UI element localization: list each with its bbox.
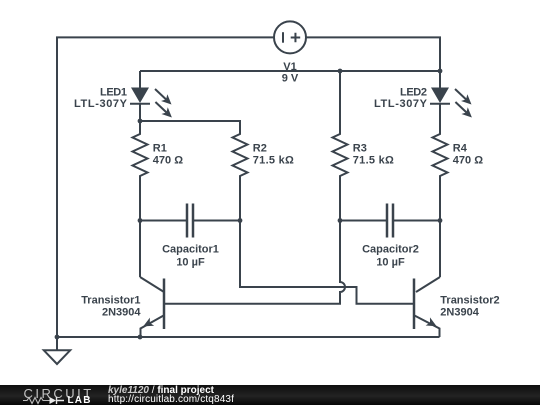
svg-text:LTL-307Y: LTL-307Y — [74, 98, 128, 110]
svg-text:71.5 kΩ: 71.5 kΩ — [253, 155, 294, 167]
svg-text:R2: R2 — [253, 143, 267, 155]
svg-text:9 V: 9 V — [282, 72, 299, 84]
svg-text:Capacitor1: Capacitor1 — [162, 244, 219, 256]
svg-text:Capacitor2: Capacitor2 — [362, 244, 419, 256]
svg-text:2N3904: 2N3904 — [102, 306, 141, 318]
svg-text:V1: V1 — [283, 61, 296, 73]
svg-text:470 Ω: 470 Ω — [153, 155, 183, 167]
svg-text:LED1: LED1 — [100, 86, 127, 98]
svg-text:470 Ω: 470 Ω — [453, 155, 483, 167]
svg-text:10 µF: 10 µF — [376, 257, 405, 269]
svg-text:LED2: LED2 — [400, 86, 427, 98]
svg-text:Transistor1: Transistor1 — [81, 294, 140, 306]
svg-text:R3: R3 — [353, 143, 367, 155]
svg-text:LTL-307Y: LTL-307Y — [374, 98, 428, 110]
svg-text:2N3904: 2N3904 — [440, 306, 479, 318]
svg-text:10 µF: 10 µF — [176, 257, 205, 269]
svg-text:Transistor2: Transistor2 — [440, 294, 499, 306]
svg-text:R1: R1 — [153, 143, 167, 155]
svg-text:R4: R4 — [453, 143, 468, 155]
svg-text:71.5 kΩ: 71.5 kΩ — [353, 155, 394, 167]
